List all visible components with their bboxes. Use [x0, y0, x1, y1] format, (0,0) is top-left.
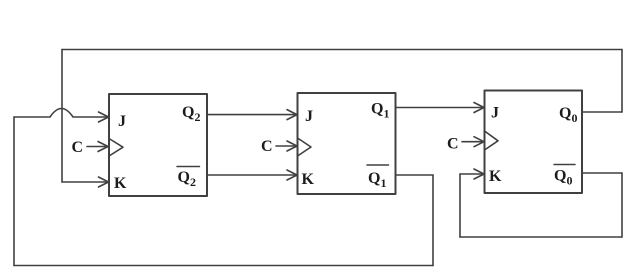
wire top feedback left drop to K of U1	[61, 50, 63, 183]
svg-text:J: J	[118, 113, 126, 130]
svg-text:Q0: Q0	[559, 105, 577, 125]
clock wedge U2	[298, 138, 312, 156]
svg-text:Q0: Q0	[554, 168, 572, 188]
clock wedge U3	[485, 131, 499, 150]
svg-text:Q1: Q1	[371, 101, 389, 121]
arrowhead into K of U3	[474, 169, 484, 179]
flip-flop U1 (Q2 stage) box	[109, 94, 207, 196]
wire Q0bar loop riser	[459, 174, 461, 237]
wire C arrow of U1	[87, 146, 106, 148]
clock wedge U1	[109, 139, 123, 157]
wire Q1bar drop	[432, 175, 434, 266]
overline of Q0bar label	[554, 164, 575, 166]
svg-text:Q1: Q1	[368, 170, 386, 190]
svg-text:C: C	[261, 138, 273, 155]
arrowhead C of U1	[98, 142, 108, 152]
wire C arrow of U3	[462, 141, 482, 143]
svg-text:K: K	[302, 171, 315, 188]
svg-text:Q2: Q2	[182, 104, 200, 124]
svg-text:C: C	[447, 136, 459, 153]
arrowhead into K of U2	[287, 170, 297, 180]
wire bottom feedback run	[14, 265, 433, 267]
wire C arrow of U2	[276, 145, 295, 147]
svg-text:K: K	[114, 175, 127, 192]
flip-flop U2 (Q1 stage) box	[298, 93, 396, 194]
wire Q0bar loop right drop	[621, 173, 623, 237]
arrowhead into J of U2	[287, 110, 297, 120]
wire K input segment of U3	[460, 173, 483, 175]
arrowhead into K of U1	[99, 177, 109, 187]
wire Q2 to J of U2	[207, 114, 296, 116]
overline of Q1bar label	[367, 164, 389, 166]
overline of Q2bar label	[177, 166, 200, 168]
wire Q0bar loop bottom run	[460, 236, 622, 238]
wire J input segment of U1 with hop over vertical	[14, 109, 107, 118]
arrowhead C of U3	[474, 137, 484, 147]
wire Q1bar output stub	[396, 174, 434, 176]
svg-text:J: J	[491, 105, 499, 122]
flip-flop U3 (Q0 stage) box	[485, 91, 583, 194]
wire Q2bar to K of U2	[207, 174, 296, 176]
wire Q0 output stub	[582, 111, 622, 113]
wire top feedback horizontal run	[62, 49, 622, 51]
arrowhead C of U2	[287, 141, 297, 151]
arrowhead into J of U1	[99, 112, 109, 122]
svg-text:Q2: Q2	[178, 169, 196, 189]
wire top feedback right riser	[621, 50, 623, 113]
wire left feedback riser	[13, 117, 15, 266]
wire Q1 to J of U3	[396, 107, 483, 109]
wire Q0bar output stub	[582, 172, 622, 174]
svg-text:K: K	[489, 168, 502, 185]
svg-text:J: J	[305, 108, 313, 125]
wire K input segment of U1	[62, 181, 107, 183]
arrowhead into J of U3	[474, 103, 484, 113]
svg-text:C: C	[72, 139, 84, 156]
